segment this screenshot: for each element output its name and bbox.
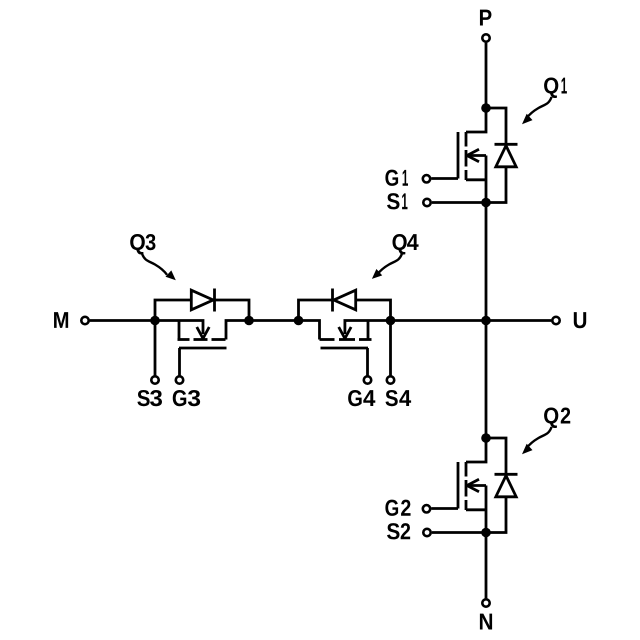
- wire source lead S2: [432, 531, 486, 534]
- label Q4: [392, 234, 406, 255]
- label S2: [387, 523, 399, 539]
- transistor Q3: [155, 321, 249, 349]
- label Q1: [544, 77, 558, 98]
- terminal circle G3: [176, 376, 183, 383]
- wire Q3 to Q4: [249, 319, 299, 322]
- label G3: [173, 390, 186, 406]
- terminal M: [81, 317, 88, 324]
- label Q3: [130, 234, 145, 255]
- diode D2 (body diode of Q2): [486, 438, 518, 533]
- pointer arrow Q1: [527, 97, 552, 118]
- terminal U: [552, 317, 559, 324]
- wire source lead S3: [154, 321, 157, 376]
- diode D3 (body diode of Q3): [155, 289, 249, 321]
- label G1: [385, 170, 398, 186]
- node Q3 right junction: [244, 316, 254, 326]
- label G4: [348, 390, 361, 406]
- label M: [54, 312, 68, 328]
- terminal circle S1: [423, 199, 430, 206]
- terminal circle G1: [423, 175, 430, 182]
- label N: [480, 614, 492, 630]
- node Q4 left junction: [294, 316, 304, 326]
- label S1: [387, 193, 399, 209]
- label G2: [385, 500, 398, 516]
- wire gate lead G2: [431, 507, 458, 510]
- diode D4 (body diode of Q4): [299, 289, 391, 321]
- node Q1 source junction: [481, 198, 491, 208]
- terminal circle G2: [423, 505, 430, 512]
- terminal circle S4: [387, 376, 394, 383]
- terminal circle G4: [364, 376, 371, 383]
- wire Q2 source to terminal N: [485, 533, 488, 599]
- terminal N: [482, 599, 489, 606]
- pointer arrow Q3: [142, 254, 167, 275]
- transistor Q4: [299, 321, 391, 349]
- wire M to Q3: [90, 319, 155, 322]
- label U: [574, 312, 586, 328]
- wire gate lead G1: [431, 177, 458, 180]
- node Q1 drain junction: [481, 103, 491, 113]
- node Q2 drain junction: [481, 433, 491, 443]
- wire node to terminal U: [486, 319, 551, 322]
- diode D1 (body diode of Q1): [486, 108, 518, 203]
- wire source lead S4: [389, 321, 392, 376]
- terminal P: [482, 34, 489, 41]
- node U junction: [481, 316, 491, 326]
- pointer arrow Q4: [377, 254, 402, 275]
- wire P to Q1 drain node: [485, 43, 488, 108]
- node Q3 left junction: [150, 316, 160, 326]
- wire node U to Q2 drain: [485, 321, 488, 439]
- wire Q4 to node U: [391, 319, 487, 322]
- label S3: [137, 390, 149, 406]
- label P: [480, 10, 491, 26]
- node Q2 source junction: [481, 528, 491, 538]
- wire source lead S1: [432, 201, 486, 204]
- terminal circle S3: [151, 376, 158, 383]
- wire gate lead G3: [178, 348, 181, 376]
- label Q2: [544, 407, 558, 428]
- transistor Q1: [458, 108, 486, 203]
- wire gate lead G4: [366, 348, 369, 376]
- terminal circle S2: [423, 529, 430, 536]
- node Q4 right junction: [386, 316, 396, 326]
- wire Q1 source to node U: [485, 203, 488, 321]
- pointer arrow Q2: [527, 427, 552, 448]
- label S4: [385, 390, 397, 406]
- transistor Q2: [458, 438, 486, 533]
